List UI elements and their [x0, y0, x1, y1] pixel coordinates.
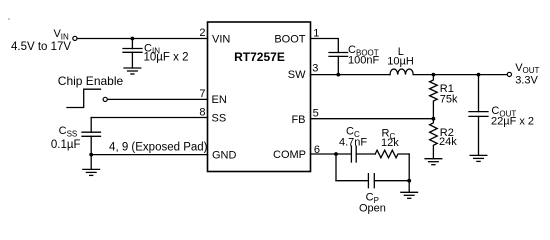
svg-text:SS: SS [67, 129, 78, 138]
svg-text:4.7nF: 4.7nF [339, 136, 367, 148]
svg-text:22µF x 2: 22µF x 2 [491, 116, 534, 128]
svg-text:BOOT: BOOT [274, 33, 305, 45]
svg-text:8: 8 [199, 106, 205, 118]
svg-text:GND: GND [212, 149, 237, 161]
svg-text:EN: EN [212, 94, 227, 106]
svg-text:C: C [59, 125, 67, 137]
svg-text:7: 7 [199, 88, 205, 100]
svg-text:1: 1 [313, 27, 319, 39]
svg-text:Chip Enable: Chip Enable [58, 74, 124, 88]
svg-text:100nF: 100nF [348, 54, 379, 66]
svg-text:6: 6 [314, 144, 320, 156]
svg-text:24k: 24k [439, 136, 457, 148]
svg-text:3: 3 [312, 63, 318, 75]
svg-text:3.3V: 3.3V [515, 74, 538, 86]
svg-text:SW: SW [288, 69, 306, 81]
svg-text:12k: 12k [381, 137, 399, 149]
svg-text:RT7257E: RT7257E [234, 50, 285, 64]
svg-text:2: 2 [199, 27, 205, 39]
svg-text:FB: FB [291, 114, 305, 126]
svg-text:4, 9 (Exposed Pad): 4, 9 (Exposed Pad) [109, 142, 208, 154]
svg-text:5: 5 [313, 108, 319, 120]
svg-text:10µH: 10µH [387, 56, 414, 68]
svg-text:4.5V to 17V: 4.5V to 17V [11, 41, 71, 53]
svg-text:0.1µF: 0.1µF [51, 139, 81, 151]
svg-text:Open: Open [359, 203, 386, 215]
svg-text:COMP: COMP [273, 149, 306, 161]
svg-text:SS: SS [212, 113, 227, 125]
svg-text:VIN: VIN [212, 34, 230, 46]
svg-text:75k: 75k [440, 94, 458, 106]
svg-text:10µF x 2: 10µF x 2 [144, 51, 189, 63]
